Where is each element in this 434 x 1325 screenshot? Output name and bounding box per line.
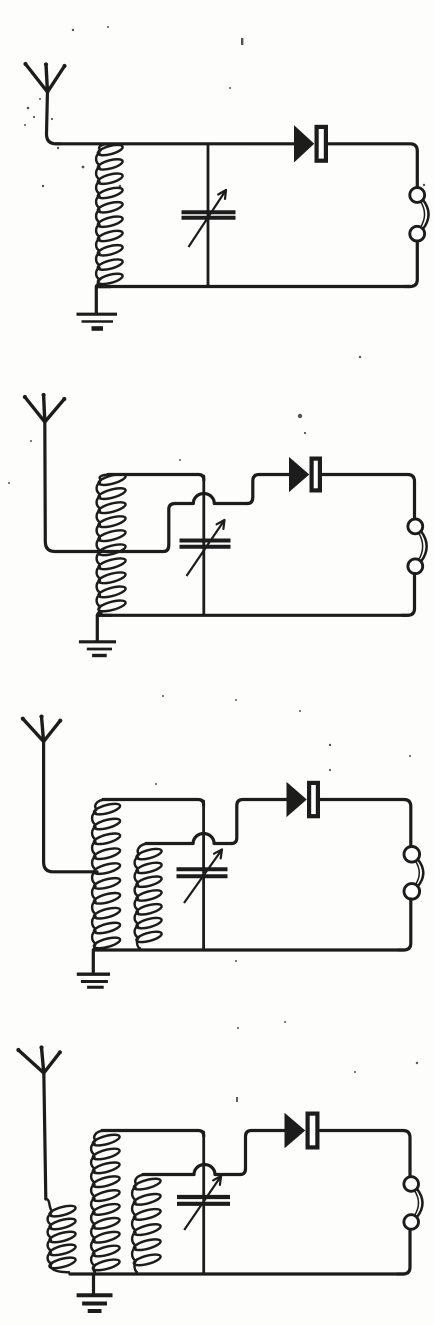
capacitor C4 variable (circuit 4) (177, 1176, 230, 1230)
wire: antenna lead down + horizontal to tap riser (circuit 2) (45, 420, 175, 552)
coil L2 (circuit 2) (97, 472, 127, 613)
ground symbol (circuit 4) (77, 1295, 113, 1311)
wire: secondary link riser to diode rail (circuit 3) (232, 800, 288, 844)
antenna AN2 (circuit 2) (23, 393, 67, 422)
wire: primary top rail to capacitor branch (circuit 4) (102, 1131, 204, 1137)
wire: secondary link riser to diode rail (circuit 4) (240, 1131, 285, 1175)
antenna AN4 (circuit 4) (16, 1045, 62, 1073)
headphones BF4 (circuit 4) (404, 1177, 423, 1230)
diode D3 (circuit 3) (287, 783, 318, 816)
coil L4b secondary (circuit 4) (132, 1175, 162, 1273)
wire: bottom rail (circuit 4) (70, 1272, 404, 1275)
wire: right rail below phones to bottom rail (circuit 4) (397, 1230, 410, 1275)
wire: antenna lead down to antenna coil (circuit 4) (44, 1071, 46, 1199)
diode D1 (circuit 1) (295, 126, 326, 161)
diode D2 (circuit 2) (290, 458, 320, 491)
scan speckles (noise) (8, 26, 425, 1102)
coil L3b secondary (circuit 3) (135, 844, 163, 949)
ground symbol (circuit 1) (77, 314, 118, 328)
headphones BF3 (circuit 3) (404, 847, 423, 900)
antenna AN1 (circuit 1) (23, 62, 66, 92)
diode D4 (circuit 4) (285, 1114, 317, 1148)
capacitor C3 variable (circuit 3) (177, 850, 228, 904)
wire: coil bottom corner to bottom rail + ground stem (circuit 1) (96, 285, 110, 314)
wire: right rail below phones to bottom rail (circuit 2) (402, 574, 415, 616)
coil L4c antenna coupling coil (circuit 4) (46, 1199, 77, 1272)
wire: top rail diode to right rail (circuit 2) (323, 475, 415, 520)
wire: top rail, antenna node to diode (circuit 1) (56, 142, 295, 145)
wire: primary top rail to capacitor branch (circuit 3) (103, 800, 204, 806)
coil L1 (circuit 1) (96, 143, 124, 286)
headphones BF1 (circuit 1) (410, 188, 429, 242)
wire: coil bottom corner to bottom rail + ground stem (circuit 2) (97, 613, 111, 641)
wire: secondary top link with hop (circuit 4) (143, 1165, 240, 1175)
wire: capacitor branch vertical (circuit 3) (202, 801, 205, 949)
wire: ground stem (circuit 3) (93, 948, 95, 972)
wire: capacitor branch vertical (circuit 4) (202, 1132, 205, 1273)
wire: antenna lead down to primary tap (circuit 3) (44, 740, 97, 872)
wire: right rail below phones to bottom rail (circuit 3) (398, 899, 411, 950)
capacitor C2 variable (circuit 2) (180, 520, 231, 576)
wire: link riser up to diode rail (circuit 2) (248, 475, 290, 504)
wire: link with hop over capacitor branch (circuit 2) (174, 494, 248, 504)
wire: top rail diode to right rail (circuit 1) (329, 144, 418, 188)
wire: antenna lead down to top rail (circuit 1) (47, 90, 61, 144)
ground symbol (circuit 3) (77, 974, 110, 987)
wire: right rail below phones to bottom rail (circuit 1) (404, 241, 417, 287)
wire: ground stem (circuit 4) (92, 1274, 95, 1293)
wire: coil top to capacitor branch (circuit 2) (108, 475, 204, 481)
antenna AN3 (circuit 3) (21, 715, 63, 742)
capacitor C1 variable (circuit 1) (182, 190, 236, 247)
coil L4a primary (circuit 4) (91, 1131, 121, 1273)
wire: bottom rail (circuit 3) (93, 948, 404, 951)
wire: top rail diode to right rail (circuit 4) (321, 1131, 411, 1178)
wire: capacitor branch vertical (circuit 1) (207, 144, 210, 287)
wire: secondary top link with hop (circuit 3) (146, 834, 232, 844)
wire: bottom rail (circuit 1) (96, 285, 410, 288)
wire: bottom rail (circuit 2) (97, 614, 408, 617)
headphones BF2 (circuit 2) (408, 519, 427, 574)
wire: top rail diode to right rail (circuit 3) (321, 800, 411, 848)
wire: capacitor branch vertical (circuit 2) (202, 476, 205, 614)
ground symbol (circuit 2) (79, 642, 116, 656)
coil L3a primary (circuit 3) (92, 800, 121, 951)
